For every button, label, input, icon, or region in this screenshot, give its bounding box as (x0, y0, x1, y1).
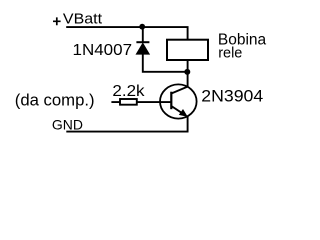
svg-text:VBatt: VBatt (63, 11, 103, 27)
svg-text:2N3904: 2N3904 (201, 86, 263, 106)
svg-text:1N4007: 1N4007 (73, 42, 133, 59)
svg-text:(da comp.): (da comp.) (15, 90, 95, 109)
svg-text:2.2k: 2.2k (112, 82, 145, 99)
svg-text:GND: GND (52, 117, 83, 133)
svg-text:rele: rele (218, 46, 242, 62)
